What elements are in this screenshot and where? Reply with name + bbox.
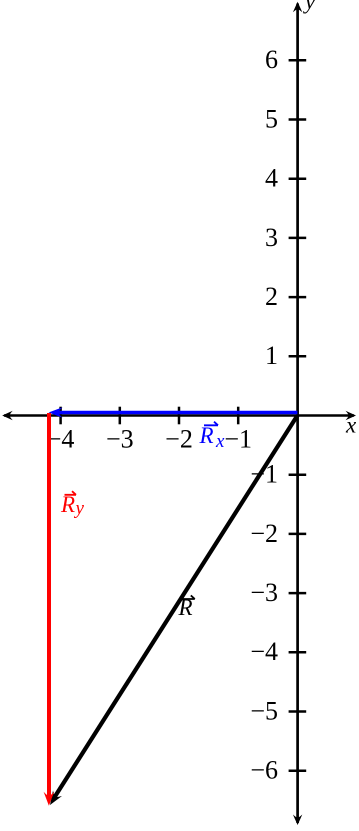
svg-text:1: 1 xyxy=(265,341,278,370)
svg-text:−1: −1 xyxy=(224,425,252,454)
svg-text:R: R xyxy=(199,423,214,448)
label vector Rx xyxy=(199,422,226,452)
vector Rx arrowhead xyxy=(49,407,63,418)
label vector R xyxy=(178,595,195,620)
tick y=-6 xyxy=(289,769,307,772)
tick y=-4 xyxy=(289,651,307,654)
svg-text:−2: −2 xyxy=(250,519,278,548)
tick y=-5 xyxy=(289,710,307,713)
svg-text:−5: −5 xyxy=(250,696,278,725)
svg-text:−4: −4 xyxy=(250,637,278,666)
svg-text:−3: −3 xyxy=(250,578,278,607)
tick x=-1 xyxy=(237,407,240,425)
svg-text:2: 2 xyxy=(265,282,278,311)
vector Rx (blue, x-component) xyxy=(57,411,297,415)
tick y=5 xyxy=(289,118,307,121)
x-axis left arrowhead xyxy=(2,411,13,420)
tick y=-2 xyxy=(289,533,307,536)
svg-text:−6: −6 xyxy=(250,756,278,785)
vector R (black resultant) xyxy=(54,416,297,799)
label vector Ry xyxy=(60,491,85,519)
tick y=2 xyxy=(289,296,307,299)
y-axis bottom arrowhead xyxy=(293,815,302,826)
svg-text:−3: −3 xyxy=(106,425,134,454)
svg-text:y: y xyxy=(303,0,316,14)
svg-text:−2: −2 xyxy=(165,425,193,454)
tick x=-2 xyxy=(178,407,181,425)
tick y=-3 xyxy=(289,592,307,595)
vector Ry arrowhead xyxy=(44,792,55,806)
svg-text:R: R xyxy=(60,492,75,517)
tick y=3 xyxy=(289,237,307,240)
tick y=4 xyxy=(289,177,307,180)
x-axis right arrowhead xyxy=(346,411,357,420)
svg-text:y: y xyxy=(74,498,85,519)
tick y=6 xyxy=(289,59,307,62)
vector Ry (red, y-component) xyxy=(47,413,51,797)
y-axis xyxy=(296,4,299,824)
svg-text:3: 3 xyxy=(265,223,278,252)
vector R arrowhead xyxy=(46,790,62,808)
y-axis top arrowhead xyxy=(293,2,302,13)
x-axis xyxy=(4,414,354,417)
svg-text:6: 6 xyxy=(265,45,278,74)
svg-text:5: 5 xyxy=(265,104,278,133)
tick y=-1 xyxy=(289,473,307,476)
svg-text:x: x xyxy=(345,413,357,438)
tick y=1 xyxy=(289,355,307,358)
svg-text:4: 4 xyxy=(265,164,278,193)
tick x=-3 xyxy=(119,407,122,425)
tick x=-4 xyxy=(59,407,62,425)
svg-text:x: x xyxy=(215,431,225,452)
